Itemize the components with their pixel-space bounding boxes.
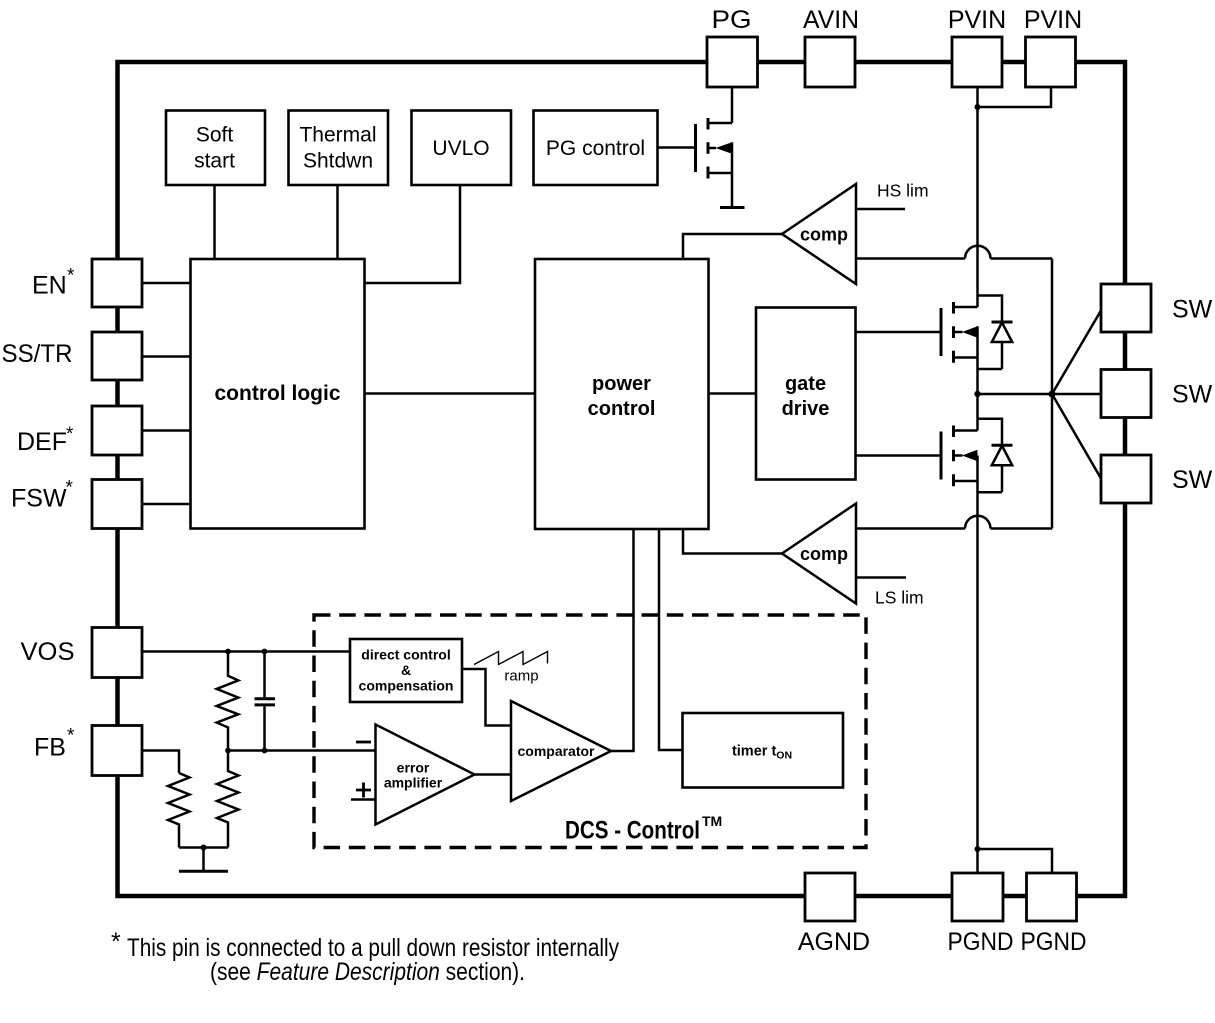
label SS/TR xyxy=(2,340,73,368)
svg-text:gate: gate xyxy=(785,373,826,395)
label FB xyxy=(34,726,75,762)
wire control logic to power control xyxy=(365,392,536,395)
node VOS-R1 junction xyxy=(225,649,231,655)
label AGND xyxy=(798,928,870,956)
pin FSW xyxy=(92,480,142,529)
wire Thermal Shtdwn to control logic xyxy=(336,185,339,259)
IC outer border xyxy=(118,62,1126,896)
wire LS lim input xyxy=(856,576,906,579)
resistor R2 xyxy=(168,773,190,848)
label PGND 2 xyxy=(1021,928,1087,956)
svg-text:*: * xyxy=(67,266,75,287)
node PGND junction xyxy=(975,846,981,852)
wire SW sense line xyxy=(1051,259,1054,529)
pin PVIN xyxy=(952,37,1002,87)
label plus input xyxy=(356,783,371,798)
transistor Q3 low-side FET xyxy=(941,394,978,486)
pin DEF xyxy=(92,406,142,455)
node FB-R1 junction xyxy=(225,748,231,754)
wire gate drive to Q3 gate xyxy=(856,454,940,457)
svg-text:*: * xyxy=(66,424,74,445)
svg-text:PG: PG xyxy=(712,6,752,34)
wire power control to timer xyxy=(659,529,683,750)
svg-text:amplifier: amplifier xyxy=(384,775,443,791)
pin FB xyxy=(92,726,142,776)
node FB-C1 junction xyxy=(262,748,268,754)
block control logic xyxy=(191,259,365,529)
svg-text:*: * xyxy=(111,928,121,956)
op-amp error amplifier xyxy=(376,725,475,825)
pin AGND xyxy=(805,873,855,921)
wire SW node to pins xyxy=(978,311,1102,479)
svg-text:comp: comp xyxy=(800,225,848,245)
svg-text:DEF: DEF xyxy=(17,428,67,456)
pin PGND 2 xyxy=(1027,873,1077,921)
label EN xyxy=(32,266,75,300)
resistor R3 xyxy=(217,751,239,848)
pin SW 3 xyxy=(1101,455,1151,503)
ground Q1 source xyxy=(720,206,745,209)
svg-text:SS/TR: SS/TR xyxy=(2,340,73,368)
wire error amplifier plus input stub xyxy=(351,798,376,801)
wire comp LS output to power control xyxy=(683,529,782,554)
pin PG xyxy=(707,37,758,87)
capacitor C1 xyxy=(255,652,276,751)
svg-text:AGND: AGND xyxy=(798,928,870,956)
svg-text:PGND: PGND xyxy=(948,928,1014,956)
wire FB net to error amplifier xyxy=(228,749,376,752)
svg-text:EN: EN xyxy=(32,272,67,300)
wire comp HS output to power control xyxy=(683,234,782,259)
svg-text:direct control: direct control xyxy=(361,647,450,663)
ramp waveform xyxy=(474,652,548,665)
label minus input xyxy=(356,741,371,744)
label PVIN 2 xyxy=(1024,6,1082,34)
svg-text:compensation: compensation xyxy=(359,678,454,694)
wire gate drive to Q2 gate xyxy=(856,331,940,334)
svg-text:SW: SW xyxy=(1172,381,1213,409)
pin PVIN 2 xyxy=(1026,37,1076,87)
svg-text:Soft: Soft xyxy=(196,124,234,147)
block Thermal Shtdwn xyxy=(289,111,389,186)
DCS-Control dashed box xyxy=(314,615,866,848)
svg-text:PGND: PGND xyxy=(1021,928,1087,956)
wire PVIN2 tie xyxy=(978,87,1052,107)
svg-text:*: * xyxy=(66,478,74,499)
svg-text:drive: drive xyxy=(782,398,830,420)
svg-text:SW: SW xyxy=(1172,296,1213,324)
op-amp comp HS xyxy=(782,184,856,284)
label PVIN xyxy=(948,6,1006,34)
node ground junction xyxy=(201,845,207,851)
resistor R1 xyxy=(217,652,239,751)
svg-text:PVIN: PVIN xyxy=(1024,6,1082,34)
wire EN to control logic xyxy=(143,282,191,285)
svg-text:LS lim: LS lim xyxy=(875,588,924,608)
wire PVIN to Q2 drain xyxy=(976,87,979,307)
svg-text:FB: FB xyxy=(34,734,66,762)
op-amp comparator xyxy=(511,701,611,801)
svg-text:VOS: VOS xyxy=(21,638,75,666)
svg-text:FSW: FSW xyxy=(11,485,67,513)
svg-text:*: * xyxy=(67,726,75,747)
svg-text:comp: comp xyxy=(800,544,848,564)
wire VOS line xyxy=(143,650,350,653)
pin SW 2 xyxy=(1101,370,1151,418)
diode D2 body diode xyxy=(978,296,1013,370)
svg-text:comparator: comparator xyxy=(517,743,595,759)
pin EN xyxy=(92,259,142,307)
label AVIN xyxy=(803,6,859,34)
wire error amplifier output xyxy=(475,773,512,776)
wire FB pin to R2 xyxy=(143,751,179,774)
svg-text:AVIN: AVIN xyxy=(803,6,859,34)
svg-text:&: & xyxy=(401,662,411,678)
label DCS-Control xyxy=(565,813,722,845)
wire direct control output to comparator xyxy=(462,669,511,726)
block UVLO xyxy=(412,111,512,186)
label PGND xyxy=(948,928,1014,956)
svg-text:control logic: control logic xyxy=(215,382,341,405)
wire PGND tie xyxy=(978,849,1053,873)
pin PGND xyxy=(952,873,1003,921)
wire PG pin to Q1 drain xyxy=(731,87,734,123)
node SW junction xyxy=(974,391,1055,398)
block timer tON xyxy=(683,713,844,788)
svg-text:ramp: ramp xyxy=(504,668,538,685)
wire power control to gate drive xyxy=(709,392,757,395)
svg-text:(see Feature Description secti: (see Feature Description section). xyxy=(210,958,525,986)
transistor Q2 high-side FET xyxy=(941,302,978,394)
wire Q3 source to PGND xyxy=(976,456,979,850)
wire DEF to control logic xyxy=(143,429,191,432)
wire Soft start to control logic xyxy=(213,185,216,259)
label FSW xyxy=(11,478,74,513)
svg-text:control: control xyxy=(588,398,656,420)
svg-text:UVLO: UVLO xyxy=(432,137,489,160)
wire PG control to Q1 gate xyxy=(658,146,695,149)
pin VOS xyxy=(92,628,142,678)
pin SW 1 xyxy=(1101,284,1151,332)
block gate drive xyxy=(756,308,856,480)
label LS lim xyxy=(875,588,924,608)
block PG control xyxy=(534,111,658,186)
ground xyxy=(179,848,228,872)
wire UVLO to control logic xyxy=(365,185,461,283)
wire comp HS sense input with hop xyxy=(856,246,1052,259)
label VOS xyxy=(21,638,75,666)
wire HS lim input xyxy=(856,208,905,211)
diode D3 body diode xyxy=(978,419,1013,493)
svg-text:error: error xyxy=(397,760,430,776)
svg-text:DCS - Control: DCS - Control xyxy=(565,817,700,845)
label SW 1 xyxy=(1172,296,1213,324)
svg-text:power: power xyxy=(592,373,651,395)
node VOS-C1 junction xyxy=(262,649,268,655)
svg-text:HS lim: HS lim xyxy=(877,181,929,201)
label SW 2 xyxy=(1172,381,1213,409)
label ramp xyxy=(504,668,538,685)
wire comp LS sense input with hop xyxy=(856,516,1052,529)
node PVIN junction xyxy=(975,104,981,110)
pin SS/TR xyxy=(92,332,142,380)
svg-text:Thermal: Thermal xyxy=(299,124,376,147)
svg-text:SW: SW xyxy=(1172,466,1213,494)
svg-text:PVIN: PVIN xyxy=(948,6,1006,34)
svg-text:PG control: PG control xyxy=(546,137,645,160)
op-amp comp LS xyxy=(782,504,856,604)
svg-text:TM: TM xyxy=(702,813,722,829)
label DEF xyxy=(17,424,74,456)
footnote xyxy=(111,928,619,986)
wire FSW to control logic xyxy=(143,503,191,506)
block direct control and compensation xyxy=(350,639,462,702)
wire comparator output to power control xyxy=(611,529,634,751)
label PG xyxy=(712,6,752,34)
wire SS/TR to control logic xyxy=(143,355,191,358)
block Soft start xyxy=(166,111,265,186)
block power control xyxy=(535,259,709,529)
transistor Q1 PG open-drain FET xyxy=(696,118,733,207)
svg-text:Shtdwn: Shtdwn xyxy=(303,150,373,173)
label HS lim xyxy=(877,181,929,201)
pin AVIN xyxy=(805,37,855,87)
label SW 3 xyxy=(1172,466,1213,494)
wire resistor common tie xyxy=(179,846,228,849)
svg-text:start: start xyxy=(194,150,235,173)
